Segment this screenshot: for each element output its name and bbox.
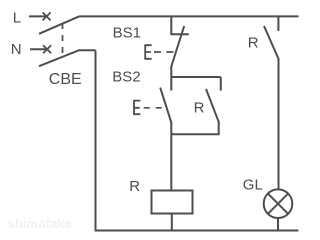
pushbutton BS1 actuator link (dashed) (154, 51, 173, 53)
relay contact R holding: top terminal (220, 77, 222, 91)
svg-text:R: R (194, 100, 205, 117)
svg-text:L: L (13, 9, 21, 26)
breaker CBE pole N blade (39, 50, 96, 66)
svg-text:BS1: BS1 (113, 25, 141, 42)
svg-text:BS2: BS2 (112, 69, 140, 86)
wire holding contact bottom stub (218, 121, 220, 134)
pushbutton BS1 top terminal (171, 16, 189, 34)
wire bottom rail (95, 230, 299, 232)
pushbutton BS2 actuator link (dashed) (144, 107, 162, 109)
wire left vertical (N down) (95, 50, 97, 230)
breaker CBE pole L blade (39, 16, 79, 33)
wire branch down to coil (170, 134, 172, 190)
wire top rail (79, 15, 299, 17)
svg-text:CBE: CBE (49, 71, 82, 88)
svg-text:shimatake: shimatake (8, 216, 73, 231)
pushbutton BS2 top terminal (170, 77, 172, 91)
svg-text:R: R (248, 35, 259, 52)
pushbutton BS1 NC blade (171, 26, 184, 67)
lamp GL cross (268, 194, 288, 214)
relay contact R lamp branch: NO blade (264, 26, 279, 59)
wire coil to bottom rail (171, 214, 173, 231)
wire parallel top rail (171, 76, 221, 78)
wire lamp branch vertical (278, 59, 280, 190)
wire lamp to bottom rail (277, 218, 279, 231)
svg-text:GL: GL (243, 176, 263, 193)
svg-text:N: N (11, 41, 22, 58)
wire parallel bottom rail (171, 133, 219, 135)
wire N lead (30, 48, 49, 50)
breaker contact cross N (43, 45, 51, 53)
wire BS2 bottom stub (170, 122, 172, 134)
wire BS1 bottom stub (170, 66, 172, 77)
breaker CBE mechanical link (dashed) (62, 23, 64, 57)
pushbutton BS2 actuator E (134, 101, 140, 115)
pushbutton BS1 actuator E (145, 45, 151, 59)
lamp GL circle (264, 189, 293, 218)
pushbutton BS2 NO blade (160, 88, 171, 123)
wire L lead (29, 15, 48, 17)
relay contact R holding: NO blade (206, 89, 219, 122)
breaker contact cross L (43, 12, 51, 20)
relay coil R (152, 191, 193, 214)
relay contact R lamp branch: top terminal (277, 16, 279, 31)
svg-text:R: R (129, 178, 140, 195)
